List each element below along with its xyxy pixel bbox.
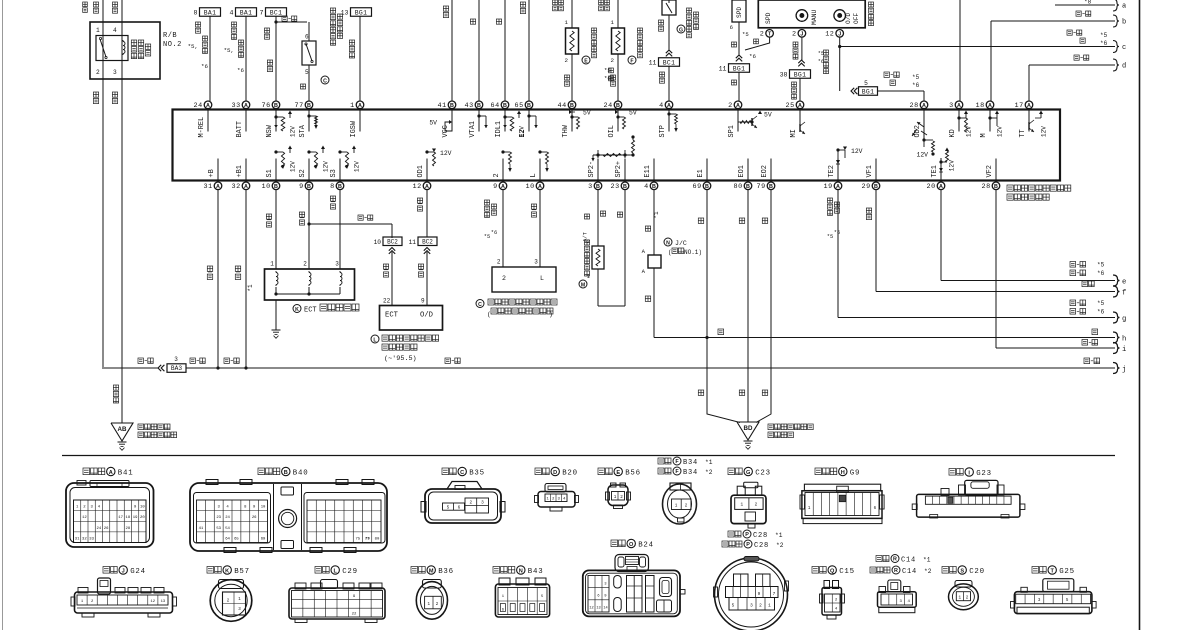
svg-text:STP: STP	[659, 125, 667, 137]
svg-text:BA3: BA3	[171, 365, 182, 372]
svg-text:32: 32	[232, 183, 241, 191]
svg-text:28: 28	[126, 527, 131, 531]
svg-text:*5: *5	[818, 51, 824, 57]
svg-text:M: M	[980, 133, 988, 137]
svg-text:TE2: TE2	[828, 165, 836, 177]
svg-text:4: 4	[659, 102, 664, 110]
svg-text:79: 79	[365, 538, 370, 542]
svg-text:6: 6	[730, 24, 733, 31]
svg-text:64: 64	[225, 537, 230, 541]
svg-text:E11: E11	[644, 165, 652, 177]
svg-text:P: P	[745, 532, 749, 538]
svg-text:12: 12	[825, 31, 834, 39]
svg-text:L: L	[530, 173, 538, 177]
svg-text:3: 3	[481, 501, 484, 506]
svg-text:1: 1	[270, 261, 274, 268]
svg-text:SP1: SP1	[728, 125, 736, 137]
svg-text:*1: *1	[653, 211, 660, 219]
svg-text:6: 6	[458, 506, 461, 511]
svg-text:64: 64	[491, 102, 500, 110]
svg-text:3: 3	[750, 604, 753, 609]
svg-text:d: d	[1122, 63, 1126, 71]
svg-text:BG1: BG1	[862, 88, 874, 95]
svg-text:1: 1	[611, 19, 615, 26]
svg-text:5: 5	[305, 69, 309, 76]
svg-text:2: 2	[303, 261, 307, 268]
svg-text:BG1: BG1	[794, 71, 806, 78]
svg-text:i: i	[1122, 346, 1126, 354]
svg-text:AB: AB	[118, 426, 127, 433]
svg-text:3: 3	[949, 102, 954, 110]
svg-text:M-REL: M-REL	[198, 117, 206, 138]
svg-text:5V: 5V	[629, 110, 637, 117]
svg-text:R: R	[894, 568, 898, 574]
svg-text:44: 44	[558, 102, 567, 110]
svg-text:B: B	[284, 470, 288, 476]
svg-text:BC2: BC2	[422, 239, 433, 246]
svg-text:31: 31	[75, 537, 80, 541]
svg-text:65: 65	[234, 537, 239, 541]
svg-text:24: 24	[604, 102, 613, 110]
svg-text:5V: 5V	[583, 110, 591, 117]
svg-text:9: 9	[299, 183, 304, 191]
svg-text:A: A	[988, 103, 992, 109]
svg-text:*1: *1	[923, 556, 931, 563]
svg-text:f: f	[1122, 290, 1126, 298]
svg-text:B41: B41	[118, 470, 134, 478]
svg-text:A: A	[216, 184, 220, 190]
svg-text:31: 31	[204, 183, 213, 191]
svg-text:R: R	[893, 557, 897, 563]
svg-text:10: 10	[140, 506, 145, 510]
svg-text:12V: 12V	[949, 160, 956, 172]
svg-text:12V: 12V	[323, 161, 330, 172]
svg-text:A: A	[206, 103, 210, 109]
svg-text:5: 5	[732, 604, 735, 609]
svg-text:IGSW: IGSW	[350, 120, 358, 137]
svg-text:17: 17	[118, 516, 123, 520]
svg-text:VF2: VF2	[986, 165, 994, 177]
svg-text:SPD: SPD	[736, 7, 743, 18]
svg-text:9: 9	[604, 594, 606, 598]
svg-text:3: 3	[588, 183, 593, 191]
svg-text:SPD: SPD	[765, 12, 772, 24]
svg-text:A: A	[939, 184, 943, 190]
svg-text:B: B	[477, 103, 481, 109]
svg-text:38: 38	[780, 72, 788, 79]
svg-text:2: 2	[493, 173, 501, 177]
svg-text:B: B	[874, 184, 878, 190]
svg-text:*5: *5	[742, 31, 749, 38]
svg-text:L: L	[540, 275, 544, 282]
svg-text:*5: *5	[1100, 32, 1108, 39]
svg-text:OFF: OFF	[853, 13, 860, 24]
svg-text:TE1: TE1	[931, 165, 939, 177]
svg-text:S: S	[960, 568, 964, 574]
svg-text:STA: STA	[299, 124, 307, 137]
svg-text:12V: 12V	[290, 126, 297, 137]
svg-text:23: 23	[611, 183, 620, 191]
svg-text:19: 19	[824, 183, 833, 191]
svg-text:C20: C20	[969, 568, 985, 576]
svg-text:33: 33	[89, 537, 94, 541]
svg-text:C: C	[460, 470, 464, 476]
svg-text:*6: *6	[912, 82, 920, 89]
svg-text:13: 13	[341, 10, 349, 17]
svg-text:80: 80	[375, 538, 380, 542]
svg-text:H: H	[841, 470, 845, 476]
svg-text:(: (	[668, 249, 672, 256]
svg-text:KD: KD	[949, 129, 957, 137]
svg-text:1: 1	[959, 596, 962, 601]
svg-text:*1: *1	[705, 459, 713, 466]
svg-text:B: B	[596, 184, 600, 190]
svg-text:17: 17	[1015, 102, 1024, 110]
svg-text:A: A	[501, 184, 505, 190]
svg-text:BA1: BA1	[240, 9, 252, 16]
svg-text:10: 10	[526, 183, 535, 191]
svg-text:C: C	[478, 302, 482, 308]
svg-text:BG1: BG1	[733, 65, 745, 72]
svg-text:3: 3	[174, 356, 178, 363]
svg-text:O: O	[629, 542, 634, 548]
svg-text:2: 2	[611, 57, 615, 64]
svg-text:(~'95.5): (~'95.5)	[384, 355, 417, 363]
svg-text:M: M	[581, 282, 585, 288]
svg-text:ECT: ECT	[385, 312, 399, 320]
svg-text:28: 28	[910, 102, 919, 110]
svg-text:23: 23	[216, 516, 221, 520]
svg-text:B: B	[274, 103, 278, 109]
svg-text:j: j	[1122, 366, 1126, 374]
svg-text:G25: G25	[1059, 568, 1075, 576]
svg-text:c: c	[1122, 44, 1126, 52]
svg-text:A: A	[358, 103, 362, 109]
svg-text:*5: *5	[484, 234, 490, 240]
svg-text:12V: 12V	[440, 150, 452, 157]
svg-text:SP2-: SP2-	[588, 161, 596, 178]
svg-text:10: 10	[374, 239, 382, 246]
svg-text:E: E	[616, 470, 620, 476]
svg-text:5: 5	[864, 80, 868, 87]
svg-text:2: 2	[497, 259, 501, 266]
svg-text:12V: 12V	[997, 126, 1004, 137]
svg-text:*1: *1	[775, 532, 783, 539]
svg-text:12V: 12V	[354, 161, 361, 172]
svg-text:2: 2	[96, 69, 100, 76]
svg-text:A: A	[957, 103, 961, 109]
svg-text:*6: *6	[1097, 309, 1105, 316]
svg-text:A: A	[836, 184, 840, 190]
svg-text:22: 22	[383, 298, 391, 305]
svg-text:2: 2	[966, 596, 969, 601]
svg-text:2: 2	[755, 503, 758, 508]
svg-text:20: 20	[927, 183, 936, 191]
svg-text:24: 24	[194, 102, 203, 110]
svg-text:VF1: VF1	[866, 165, 874, 177]
svg-text:*5: *5	[1097, 262, 1105, 269]
svg-text:MANU: MANU	[811, 9, 818, 25]
svg-text:A: A	[736, 103, 740, 109]
svg-text:1: 1	[565, 19, 569, 26]
svg-text:B: B	[274, 184, 278, 190]
svg-text:18: 18	[976, 102, 985, 110]
svg-text:43: 43	[465, 102, 474, 110]
svg-text:75: 75	[356, 537, 361, 541]
svg-text:9: 9	[493, 183, 498, 191]
svg-text:G24: G24	[130, 568, 146, 576]
svg-text:24: 24	[225, 516, 230, 520]
svg-text:11: 11	[409, 239, 417, 246]
svg-text:3: 3	[113, 69, 117, 76]
svg-text:12V: 12V	[519, 126, 526, 137]
svg-text:24: 24	[97, 527, 102, 531]
svg-text:B20: B20	[562, 470, 578, 478]
svg-text:41: 41	[438, 102, 447, 110]
svg-text:12V: 12V	[1041, 126, 1048, 137]
svg-text:g: g	[1122, 316, 1126, 324]
svg-text:32: 32	[82, 537, 87, 541]
svg-text:B: B	[307, 184, 311, 190]
svg-text:25: 25	[786, 102, 795, 110]
svg-text:*5: *5	[1097, 300, 1105, 307]
svg-text:*6: *6	[491, 230, 497, 236]
svg-text:C14: C14	[902, 568, 917, 576]
svg-text:R/B: R/B	[163, 32, 177, 40]
svg-text:69: 69	[261, 537, 266, 541]
svg-text:22: 22	[352, 612, 357, 616]
svg-text:B: B	[338, 184, 342, 190]
svg-text:4: 4	[230, 10, 234, 17]
svg-text:12: 12	[589, 607, 593, 611]
svg-text:4: 4	[113, 27, 117, 34]
svg-text:*2: *2	[705, 469, 713, 476]
svg-text:18: 18	[126, 516, 131, 520]
svg-text:BA1: BA1	[204, 9, 216, 16]
svg-text:F: F	[630, 58, 633, 64]
svg-text:A: A	[798, 103, 802, 109]
svg-text:+B: +B	[208, 169, 216, 177]
svg-text:ECT: ECT	[304, 307, 317, 315]
svg-text:C28: C28	[753, 532, 768, 540]
svg-text:B56: B56	[625, 470, 641, 478]
svg-text:BC1: BC1	[270, 9, 282, 16]
svg-text:BATT: BATT	[236, 121, 244, 138]
svg-text:3: 3	[335, 261, 339, 268]
svg-text:S3: S3	[330, 169, 338, 177]
svg-text:O/D: O/D	[845, 13, 852, 24]
svg-text:20: 20	[140, 516, 145, 520]
svg-text:): )	[549, 311, 553, 318]
svg-text:41: 41	[199, 527, 204, 531]
svg-text:C29: C29	[342, 568, 358, 576]
svg-text:A: A	[425, 184, 429, 190]
svg-text:G9: G9	[850, 470, 860, 478]
svg-text:1: 1	[740, 503, 743, 508]
svg-text:J/C: J/C	[675, 240, 687, 247]
svg-text:6: 6	[597, 594, 599, 598]
svg-text:8: 8	[194, 10, 198, 17]
svg-text:*6: *6	[818, 59, 824, 65]
svg-text:2: 2	[759, 604, 762, 609]
svg-text:12V: 12V	[851, 148, 863, 155]
svg-text:2: 2	[469, 501, 472, 506]
svg-text:B: B	[746, 184, 750, 190]
svg-text:S1: S1	[266, 169, 274, 177]
svg-text:A: A	[1027, 103, 1031, 109]
svg-text:A: A	[667, 103, 671, 109]
svg-text:B34: B34	[683, 469, 698, 477]
svg-text:e: e	[1122, 279, 1126, 287]
svg-text:12V: 12V	[966, 126, 973, 137]
svg-text:P: P	[746, 542, 750, 548]
svg-text:Q: Q	[830, 568, 835, 574]
svg-text:TT: TT	[1019, 129, 1027, 137]
svg-text:B: B	[527, 103, 531, 109]
svg-text:NO.1): NO.1)	[684, 249, 702, 256]
svg-text:BC1: BC1	[663, 59, 675, 66]
svg-text:2: 2	[502, 275, 506, 282]
svg-text:SP2+: SP2+	[615, 161, 623, 178]
svg-text:B: B	[994, 184, 998, 190]
svg-text:33: 33	[232, 102, 241, 110]
svg-text:N: N	[666, 240, 670, 246]
svg-text:VTA1: VTA1	[469, 121, 477, 138]
svg-text:B34: B34	[683, 459, 698, 467]
svg-text:8: 8	[330, 183, 335, 191]
svg-text:*2: *2	[924, 568, 932, 575]
svg-text:M: M	[429, 568, 434, 574]
svg-text:19: 19	[133, 516, 138, 520]
svg-text:79: 79	[757, 183, 766, 191]
svg-text:C: C	[323, 78, 327, 84]
svg-text:J: J	[122, 568, 125, 574]
svg-text:B57: B57	[234, 568, 250, 576]
svg-text:12V: 12V	[290, 161, 297, 172]
svg-text:*5,: *5,	[224, 47, 234, 54]
svg-text:12: 12	[413, 183, 422, 191]
svg-text:B: B	[503, 103, 507, 109]
svg-text:C23: C23	[755, 470, 771, 478]
svg-text:E: E	[584, 58, 588, 64]
svg-text:2: 2	[565, 57, 569, 64]
svg-text:IDL1: IDL1	[495, 121, 503, 138]
svg-text:MI: MI	[790, 129, 798, 137]
svg-text:D: D	[553, 470, 557, 476]
svg-text:K: K	[295, 307, 299, 313]
svg-text:A: A	[538, 184, 542, 190]
svg-text:54: 54	[225, 527, 230, 531]
svg-text:9: 9	[758, 592, 761, 597]
svg-text:*2: *2	[776, 542, 784, 549]
svg-text:OD1: OD1	[417, 165, 425, 177]
svg-text:(: (	[487, 311, 491, 318]
svg-text:b: b	[1122, 19, 1126, 27]
svg-text:2: 2	[728, 102, 733, 110]
svg-text:2: 2	[792, 31, 797, 39]
svg-text:B43: B43	[528, 568, 544, 576]
svg-text:53: 53	[216, 527, 221, 531]
svg-text:h: h	[1122, 336, 1126, 344]
svg-text:G23: G23	[976, 470, 992, 478]
svg-text:1: 1	[614, 495, 617, 500]
svg-text:13: 13	[161, 600, 166, 604]
svg-text:B35: B35	[469, 470, 485, 478]
svg-text:B: B	[307, 103, 311, 109]
svg-text:5V: 5V	[429, 120, 437, 127]
svg-text:7: 7	[773, 592, 776, 597]
svg-text:T: T	[1050, 568, 1054, 574]
svg-text:B40: B40	[293, 470, 309, 478]
svg-text:+B1: +B1	[236, 165, 244, 177]
svg-text:B24: B24	[638, 542, 654, 550]
svg-text:1: 1	[96, 27, 100, 34]
svg-text:65: 65	[515, 102, 524, 110]
svg-text:6: 6	[305, 34, 309, 41]
svg-text:1: 1	[350, 102, 355, 110]
svg-text:N: N	[519, 568, 523, 574]
svg-text:29: 29	[862, 183, 871, 191]
svg-text:A: A	[244, 103, 248, 109]
svg-text:*1: *1	[247, 284, 254, 292]
svg-text:5: 5	[447, 506, 450, 511]
svg-text:28: 28	[982, 183, 991, 191]
svg-text:B: B	[705, 184, 709, 190]
svg-text:*6: *6	[1097, 270, 1105, 277]
svg-text:1: 1	[675, 504, 678, 509]
svg-text:3: 3	[604, 582, 606, 586]
svg-text:L: L	[333, 568, 337, 574]
svg-text:OIL: OIL	[608, 125, 616, 137]
svg-text:11: 11	[649, 60, 657, 67]
svg-text:O/D: O/D	[420, 312, 433, 320]
svg-text:A: A	[109, 470, 113, 476]
svg-text:J: J	[838, 31, 841, 37]
svg-text:*6: *6	[749, 53, 756, 60]
svg-text:NO.2: NO.2	[163, 41, 182, 49]
svg-text:2: 2	[760, 31, 765, 39]
svg-text:EO1: EO1	[738, 165, 746, 177]
svg-text:80: 80	[734, 183, 743, 191]
svg-text:12: 12	[82, 516, 87, 520]
svg-text:C15: C15	[839, 568, 855, 576]
svg-text:A: A	[244, 184, 248, 190]
svg-text:B36: B36	[438, 568, 454, 576]
svg-text:C14: C14	[901, 556, 916, 564]
svg-text:BD: BD	[744, 425, 753, 432]
svg-text:2: 2	[685, 504, 688, 509]
svg-text:*6: *6	[237, 67, 244, 74]
svg-text:B: B	[616, 103, 620, 109]
svg-text:B: B	[450, 103, 454, 109]
svg-text:9: 9	[421, 298, 425, 305]
svg-text:3: 3	[534, 259, 538, 266]
svg-text:77: 77	[295, 102, 304, 110]
svg-text:B: B	[623, 184, 627, 190]
svg-text:2: 2	[620, 495, 623, 500]
svg-text:C28: C28	[754, 542, 769, 550]
svg-text:A: A	[922, 103, 926, 109]
svg-text:*5,: *5,	[188, 43, 198, 50]
svg-text:10: 10	[262, 183, 271, 191]
svg-text:13: 13	[596, 607, 600, 611]
svg-text:26: 26	[252, 516, 257, 520]
svg-text:B: B	[570, 103, 574, 109]
svg-text:J: J	[800, 31, 803, 37]
svg-text:*8: *8	[1084, 0, 1092, 6]
svg-text:K: K	[225, 568, 229, 574]
svg-text:B: B	[652, 184, 656, 190]
